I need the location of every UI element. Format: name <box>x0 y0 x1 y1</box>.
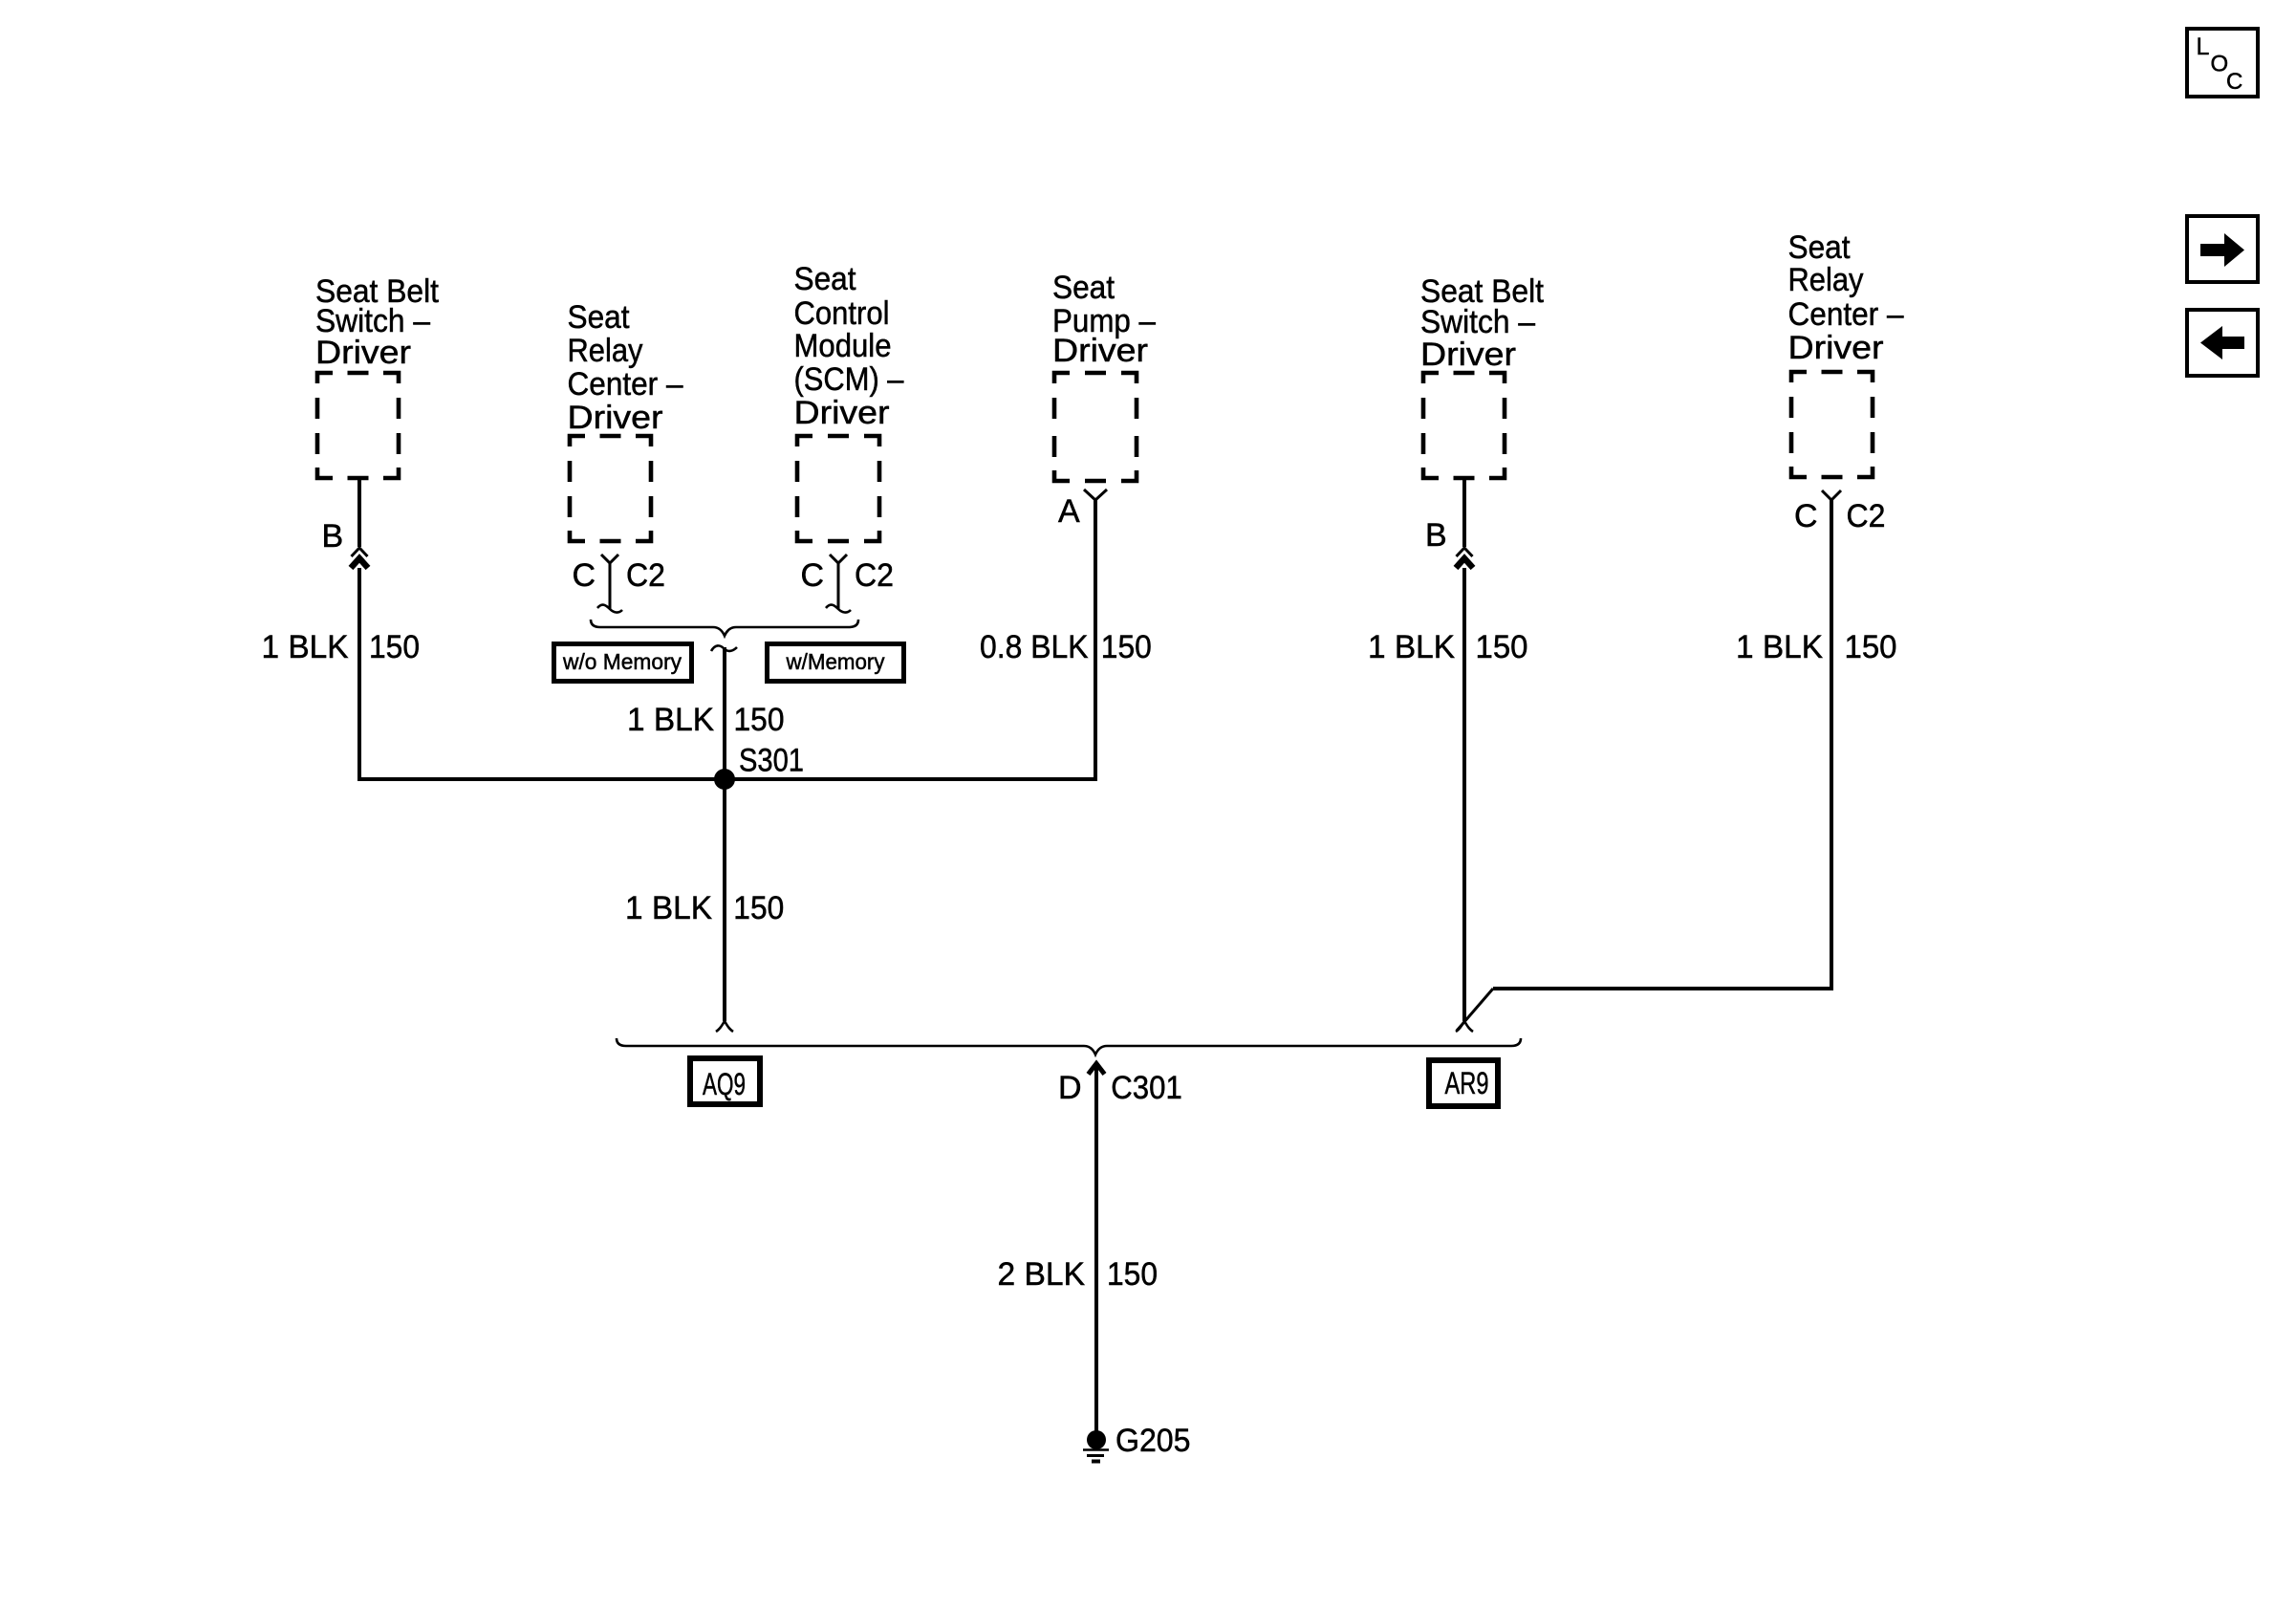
svg-text:C: C <box>573 557 596 594</box>
svg-text:AQ9: AQ9 <box>703 1067 746 1101</box>
svg-text:Seat: Seat <box>568 299 631 336</box>
svg-text:G205: G205 <box>1116 1423 1191 1459</box>
svg-text:Driver: Driver <box>1052 333 1148 369</box>
svg-text:1 BLK: 1 BLK <box>625 890 712 926</box>
svg-text:C301: C301 <box>1111 1070 1182 1106</box>
svg-text:Switch –: Switch – <box>1420 304 1535 340</box>
svg-text:A: A <box>1058 493 1080 530</box>
svg-text:0.8 BLK: 0.8 BLK <box>980 629 1089 665</box>
svg-text:Driver: Driver <box>315 335 411 371</box>
svg-text:L: L <box>2197 33 2210 60</box>
svg-text:Center –: Center – <box>568 366 683 402</box>
svg-text:C2: C2 <box>855 557 894 594</box>
svg-text:Driver: Driver <box>1420 337 1516 373</box>
svg-text:w/Memory: w/Memory <box>786 649 885 674</box>
svg-text:C: C <box>801 557 825 594</box>
svg-text:Center –: Center – <box>1788 296 1904 333</box>
svg-text:C: C <box>2226 69 2242 95</box>
svg-text:Module: Module <box>794 328 892 364</box>
svg-text:Driver: Driver <box>1788 330 1884 366</box>
svg-text:150: 150 <box>733 890 784 926</box>
svg-text:1 BLK: 1 BLK <box>1736 629 1823 665</box>
svg-text:S301: S301 <box>739 743 804 779</box>
svg-text:C2: C2 <box>626 557 665 594</box>
svg-text:AR9: AR9 <box>1445 1066 1489 1100</box>
svg-text:2 BLK: 2 BLK <box>998 1256 1086 1293</box>
svg-text:Relay: Relay <box>1788 262 1864 298</box>
svg-text:150: 150 <box>369 629 420 665</box>
svg-text:(SCM) –: (SCM) – <box>794 361 904 398</box>
svg-text:Driver: Driver <box>794 395 890 431</box>
svg-text:1 BLK: 1 BLK <box>262 629 349 665</box>
svg-text:Relay: Relay <box>568 333 643 369</box>
svg-text:Seat: Seat <box>794 261 857 297</box>
svg-text:C: C <box>1794 498 1818 534</box>
svg-text:150: 150 <box>1845 629 1897 665</box>
svg-text:w/o Memory: w/o Memory <box>562 649 682 674</box>
svg-text:Seat: Seat <box>1788 229 1852 266</box>
svg-text:1 BLK: 1 BLK <box>627 702 714 738</box>
svg-text:Driver: Driver <box>568 400 663 436</box>
svg-text:B: B <box>322 518 344 555</box>
svg-text:D: D <box>1058 1070 1082 1106</box>
svg-text:150: 150 <box>1476 629 1528 665</box>
svg-text:1 BLK: 1 BLK <box>1368 629 1455 665</box>
svg-text:Seat: Seat <box>1052 270 1116 306</box>
svg-text:150: 150 <box>1107 1256 1158 1293</box>
svg-text:C2: C2 <box>1847 498 1886 534</box>
svg-text:150: 150 <box>734 702 785 738</box>
svg-text:Control: Control <box>794 295 890 332</box>
svg-text:150: 150 <box>1101 629 1152 665</box>
svg-text:B: B <box>1425 517 1447 554</box>
